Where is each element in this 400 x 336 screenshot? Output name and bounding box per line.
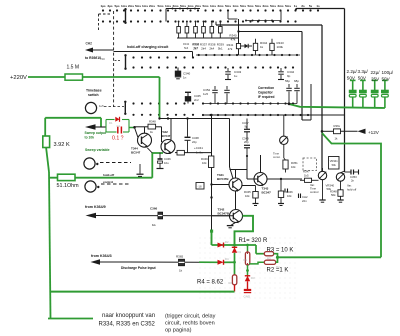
- hold-off charging wire: [114, 52, 193, 58]
- capacitor C342: [278, 68, 295, 80]
- transistor T342 bottom: [230, 210, 243, 224]
- bus wire y103: [203, 103, 297, 105]
- ground VR343: [337, 200, 343, 202]
- svg-text:D1: D1: [109, 121, 113, 125]
- svg-text:BC547B: BC547B: [217, 177, 229, 181]
- T343 base wire: [247, 156, 258, 179]
- T343 collector wire: [260, 155, 262, 173]
- svg-text:22p: 22p: [192, 140, 197, 144]
- svg-text:9p: 9p: [287, 74, 291, 78]
- svg-text:hold-off charging circuit: hold-off charging circuit: [127, 45, 169, 49]
- vertical wire x238: [238, 19, 240, 55]
- small dots row: [245, 20, 281, 22]
- svg-text:2ms: 2ms: [149, 4, 155, 8]
- svg-text:R334, R335 en C352: R334, R335 en C352: [99, 322, 156, 328]
- junction after box: [133, 126, 136, 129]
- svg-text:47k: 47k: [231, 38, 236, 42]
- T344 collector wire: [144, 127, 146, 133]
- svg-text:control: control: [103, 180, 113, 184]
- svg-text:10k: 10k: [245, 194, 250, 198]
- switch contact dots row 1: [102, 9, 319, 11]
- svg-text:5ms: 5ms: [180, 4, 186, 8]
- timebase switch knob: [85, 102, 96, 113]
- label -18v box: [196, 183, 204, 190]
- transistor T342 mid: [161, 140, 175, 155]
- junction A2: [246, 244, 249, 247]
- bias green drop: [210, 230, 213, 245]
- capacitor C366: [150, 207, 163, 228]
- wire x216 stub: [215, 22, 217, 26]
- hold-off wire: [49, 177, 152, 179]
- svg-text:3.3µ/: 3.3µ/: [358, 69, 369, 74]
- svg-text:1ms: 1ms: [187, 4, 193, 8]
- svg-text:Correction: Correction: [258, 86, 274, 90]
- resistor R341: [227, 43, 241, 51]
- ground under R345: [253, 204, 259, 206]
- resistor R365: [176, 255, 185, 273]
- R1 bottom stub: [247, 265, 249, 271]
- T342 base wire: [210, 196, 229, 216]
- svg-text:R4: R4: [229, 281, 233, 285]
- junction x322 y131: [321, 130, 324, 133]
- emitter green wire: [152, 153, 163, 178]
- svg-text:-18: -18: [198, 185, 202, 189]
- resistor bank labels: [192, 43, 224, 51]
- svg-text:100µ/: 100µ/: [382, 70, 394, 75]
- green cap bus: [289, 104, 385, 108]
- arrow +12V: [358, 129, 366, 134]
- svg-text:R348: R348: [149, 120, 156, 124]
- svg-text:5k1: 5k1: [218, 47, 223, 51]
- wire down x159: [159, 77, 161, 119]
- svg-text:C366: C366: [150, 207, 158, 211]
- contact dots row y67: [202, 66, 294, 68]
- long vertical wire x344: [344, 9, 346, 173]
- svg-text:Discharge Pulse Input: Discharge Pulse Input: [121, 266, 157, 270]
- svg-text:1k: 1k: [260, 45, 264, 49]
- junction R1 bottom: [246, 269, 249, 272]
- timebase range labels right: [157, 4, 320, 8]
- svg-text:5ms: 5ms: [255, 4, 261, 8]
- T341 base wire: [210, 183, 229, 185]
- svg-text:D1: D1: [238, 250, 242, 254]
- vertical green x256: [256, 245, 264, 254]
- svg-text:1ms: 1ms: [142, 4, 148, 8]
- wire R348 to T342 base: [156, 127, 162, 142]
- junction x159 y118: [158, 114, 212, 120]
- bus wire y115: [203, 114, 345, 116]
- svg-text:1n: 1n: [152, 223, 156, 227]
- capacitor C346: [157, 153, 172, 169]
- electrolytic capacitor bank: [349, 80, 388, 108]
- wire 1.5M to corner: [83, 76, 160, 78]
- svg-text:control: control: [310, 190, 319, 194]
- svg-text:1n: 1n: [183, 76, 187, 80]
- wire y131: [322, 130, 334, 132]
- wire x229 to T341: [230, 167, 234, 179]
- box VR341: [329, 157, 340, 170]
- wire L x166: [166, 8, 200, 22]
- svg-text:25V: 25V: [371, 77, 380, 82]
- svg-text:1ms: 1ms: [210, 4, 216, 8]
- R3 right stub: [274, 254, 278, 263]
- svg-text:5k6: 5k6: [184, 46, 189, 50]
- wire +220V feed: [28, 76, 65, 78]
- long vertical wire x322: [321, 25, 323, 171]
- svg-text:circuit, rechts boven: circuit, rechts boven: [165, 321, 215, 327]
- svg-text:50V: 50V: [382, 77, 391, 82]
- svg-text:720: 720: [100, 57, 105, 61]
- svg-text:BC547: BC547: [131, 151, 141, 155]
- resistor 1.5M: [65, 74, 83, 80]
- contact dots row y114 left: [132, 114, 194, 116]
- svg-text:+220V: +220V: [10, 75, 27, 81]
- svg-text:(trigger circuit, delay: (trigger circuit, delay: [165, 314, 216, 320]
- junction R3R2: [276, 256, 279, 259]
- pot VR343: [336, 171, 344, 190]
- wire T342 to R342: [175, 152, 177, 154]
- diode D340: [241, 44, 252, 48]
- capacitor C345: [185, 92, 201, 103]
- capacitor C353: [345, 170, 359, 183]
- svg-text:VR341: VR341: [330, 159, 338, 163]
- svg-text:R4 = 8.62: R4 = 8.62: [197, 280, 224, 286]
- svg-text:5ms: 5ms: [247, 4, 253, 8]
- timebase switch dashes: [104, 106, 124, 108]
- svg-text:1s: 1s: [316, 4, 320, 8]
- wire T341 emitter to T342 collector: [235, 191, 237, 210]
- svg-text:to 10k: to 10k: [85, 136, 95, 140]
- label T341: [217, 173, 229, 181]
- capacitor C340: [175, 68, 191, 80]
- svg-text:20p: 20p: [244, 140, 249, 144]
- svg-text:R343: R343: [193, 42, 200, 46]
- diode D5: [115, 117, 119, 122]
- switch contact dots row 4: [132, 66, 194, 68]
- svg-text:2k4: 2k4: [209, 47, 214, 51]
- contact dots row y55: [196, 54, 300, 56]
- svg-text:1u5: 1u5: [203, 92, 208, 96]
- switch wiper dashed line: [113, 11, 115, 107]
- label VR340 50k: [326, 184, 335, 192]
- svg-text:op pagina): op pagina): [165, 328, 192, 334]
- svg-text:to R39/I10: to R39/I10: [85, 56, 101, 60]
- svg-text:Sweep output: Sweep output: [85, 131, 108, 135]
- timebase range labels left: [100, 4, 155, 8]
- switch wiper bar section2: [124, 54, 126, 70]
- label T342 mid: [161, 130, 171, 138]
- label Var hold-off: [347, 184, 357, 192]
- arrow K364/3: [91, 259, 101, 264]
- resistor R345: [244, 190, 258, 203]
- switch contact dots row 3: [132, 56, 194, 58]
- label C341 100u: [194, 146, 203, 155]
- svg-text:5ms: 5ms: [202, 4, 208, 8]
- svg-text:56k: 56k: [331, 193, 336, 197]
- T344 emitter stub: [147, 148, 152, 153]
- switch wiper dashed line 2: [99, 14, 111, 30]
- svg-text:10k: 10k: [202, 161, 207, 165]
- capacitor C350: [285, 79, 292, 104]
- wire corner C: [302, 84, 311, 120]
- cap mark: [285, 189, 288, 193]
- junction dot: [237, 30, 239, 32]
- contact dots row y103 right: [202, 102, 294, 104]
- control dashes: [101, 183, 130, 185]
- svg-text:Capacitor: Capacitor: [258, 91, 273, 95]
- svg-text:2k4: 2k4: [201, 47, 206, 51]
- wire sweep corner down: [100, 118, 102, 127]
- svg-text:2µs: 2µs: [107, 4, 112, 8]
- svg-text:R1: R1: [244, 258, 248, 262]
- resistor 3.92K: [43, 136, 50, 148]
- bias rail x211: [211, 115, 213, 231]
- transistor T341: [229, 178, 242, 192]
- resistor R352: [330, 190, 343, 200]
- svg-text:56p: 56p: [285, 79, 290, 83]
- svg-text:1u5: 1u5: [99, 104, 104, 108]
- node line A: [212, 244, 257, 246]
- svg-text:68p: 68p: [294, 79, 299, 83]
- transistor T344: [138, 133, 152, 148]
- svg-text:5s: 5s: [309, 4, 313, 8]
- wire junction to T344 base: [135, 128, 138, 138]
- svg-text:50V: 50V: [358, 76, 367, 81]
- svg-text:D2: D2: [225, 240, 229, 244]
- capacitor C349: [242, 137, 250, 158]
- switch dash stub: [115, 60, 121, 62]
- svg-text:D4: D4: [225, 257, 229, 261]
- svg-text:1ms: 1ms: [165, 4, 171, 8]
- svg-text:1..0u: 1..0u: [196, 151, 203, 155]
- resistor R348: [148, 120, 156, 135]
- capacitor C352 group: [203, 86, 230, 104]
- T342 emitter ground: [227, 222, 236, 228]
- green wire into D2: [199, 261, 218, 263]
- svg-text:2s: 2s: [301, 4, 305, 8]
- wire corner B: [216, 24, 322, 26]
- svg-text:5ms: 5ms: [240, 4, 246, 8]
- svg-text:1s: 1s: [294, 4, 298, 8]
- svg-text:const.: const.: [273, 155, 281, 159]
- svg-text:2ms: 2ms: [195, 4, 201, 8]
- bottom green stub: [48, 318, 93, 320]
- svg-text:R365: R365: [176, 255, 184, 259]
- label Timebase switch: [86, 89, 102, 98]
- svg-text:1ms: 1ms: [121, 4, 127, 8]
- svg-text:1.5 M: 1.5 M: [67, 65, 80, 71]
- wire top bend: [228, 11, 238, 20]
- svg-text:2ms: 2ms: [128, 4, 134, 8]
- vertical wire x281 top: [280, 11, 282, 21]
- T341 collector wire: [235, 170, 237, 179]
- svg-text:51.1Ohm: 51.1Ohm: [57, 183, 80, 189]
- svg-text:R342: R342: [183, 42, 190, 46]
- svg-text:5ms: 5ms: [270, 4, 276, 8]
- label T343: [262, 187, 272, 195]
- wire K364/3: [99, 261, 199, 263]
- svg-text:5ms: 5ms: [157, 4, 163, 8]
- resistor R3: [264, 252, 276, 261]
- svg-text:GND: GND: [244, 295, 252, 299]
- sweep variable knob: [84, 158, 99, 169]
- label Sweep output: [85, 131, 108, 140]
- resistor R342: [177, 150, 184, 155]
- wire R351 to arrow: [341, 130, 358, 132]
- svg-text:BC547: BC547: [262, 191, 272, 195]
- wire K364/9: [95, 215, 233, 217]
- svg-text:9p: 9p: [245, 125, 249, 129]
- svg-text:2ms: 2ms: [172, 4, 178, 8]
- wire y169: [230, 169, 248, 171]
- RC network box: [106, 120, 129, 133]
- arrow K364/9: [86, 213, 97, 218]
- capacitor C347: [242, 119, 250, 142]
- svg-text:BC547B: BC547B: [218, 212, 230, 216]
- svg-text:100k: 100k: [277, 45, 284, 49]
- svg-text:2ms: 2ms: [262, 4, 268, 8]
- switch contact dots row 2: [102, 20, 297, 22]
- capacitor C351: [294, 79, 300, 104]
- svg-text:1u: 1u: [234, 74, 238, 78]
- svg-text:BC547: BC547: [161, 134, 171, 138]
- svg-text:5k7: 5k7: [194, 46, 199, 50]
- label cap values: [347, 69, 394, 75]
- diode D3: [245, 271, 255, 290]
- svg-text:+C341: +C341: [194, 146, 203, 150]
- svg-text:22µ/: 22µ/: [371, 70, 381, 75]
- contact dots row y103 left: [132, 102, 194, 104]
- wire to R348: [135, 126, 149, 128]
- svg-text:IF required: IF required: [258, 95, 275, 99]
- svg-text:0.1 ?: 0.1 ?: [112, 136, 124, 142]
- svg-text:47k: 47k: [228, 47, 233, 51]
- left rail vertical lower: [45, 140, 50, 319]
- pot VR342: [280, 115, 288, 158]
- svg-text:D3: D3: [251, 276, 255, 280]
- svg-text:R1= 320 R: R1= 320 R: [239, 238, 269, 244]
- switch wiper bar section3: [124, 101, 126, 115]
- svg-text:1k: 1k: [179, 269, 183, 273]
- wire R342 right: [184, 152, 211, 154]
- resistor R2: [264, 260, 280, 269]
- eagle grid dots: [200, 238, 296, 299]
- junction A1: [233, 244, 236, 247]
- resistor R347: [300, 170, 319, 183]
- collector rail x229: [229, 119, 231, 168]
- diode D4: [218, 257, 230, 265]
- red ground GND: [244, 290, 252, 299]
- svg-text:2ms: 2ms: [277, 4, 283, 8]
- pot VR340: [318, 168, 326, 200]
- svg-text:+12V: +12V: [368, 130, 380, 135]
- label correction capacitor: [258, 86, 275, 99]
- label trigger circuit: [165, 314, 216, 334]
- resistor R4: [229, 262, 237, 291]
- wire y118 horizontal: [45, 117, 101, 119]
- svg-text:5ms: 5ms: [225, 4, 231, 8]
- resistor R346: [278, 179, 293, 203]
- resistor R349: [201, 156, 214, 168]
- ground stub x140: [137, 164, 144, 176]
- sweep variable dashes: [100, 162, 131, 164]
- arrow to R39/I10: [85, 48, 114, 53]
- svg-text:2n2: 2n2: [194, 98, 199, 102]
- diode D1: [232, 245, 242, 262]
- svg-text:1ms: 1ms: [232, 4, 238, 8]
- svg-text:3.92 K: 3.92 K: [54, 142, 70, 148]
- junction B1: [233, 261, 236, 264]
- left rail vertical: [44, 118, 46, 140]
- ground VR340: [319, 200, 325, 202]
- capacitor C343: [225, 68, 242, 80]
- capacitor CH2 22n: [299, 194, 309, 204]
- wire corner A: [295, 8, 345, 10]
- R1 to R2 wire: [249, 262, 264, 264]
- capacitor C348a: [185, 119, 200, 153]
- dashed IC box: [303, 158, 317, 171]
- svg-text:from K364/3: from K364/3: [91, 254, 112, 258]
- ground under R346: [278, 204, 284, 206]
- label R342 R343 top: [183, 42, 200, 50]
- transistor T343: [254, 173, 267, 187]
- label Var Time control: [310, 183, 319, 194]
- svg-text:hold-off: hold-off: [347, 188, 357, 192]
- sweep output arrow: [85, 124, 106, 130]
- collector green stair: [235, 216, 254, 245]
- T342 collector wire: [170, 119, 172, 141]
- label cap voltages: [347, 76, 391, 82]
- wire y179 right: [267, 178, 303, 180]
- resistor R344: [253, 39, 267, 55]
- capacitor C5: [118, 127, 122, 134]
- svg-text:C1: C1: [117, 124, 121, 128]
- svg-text:5µs: 5µs: [114, 4, 119, 8]
- long vertical wire x302: [301, 32, 303, 121]
- green wire D4 to junction: [224, 261, 235, 263]
- svg-text:50V: 50V: [347, 76, 356, 81]
- svg-text:5ms: 5ms: [285, 4, 291, 8]
- wire T341-R345: [242, 186, 256, 192]
- svg-text:10u: 10u: [164, 161, 169, 165]
- svg-text:naar knooppunt van: naar knooppunt van: [102, 313, 155, 319]
- svg-text:2ms: 2ms: [217, 4, 223, 8]
- svg-text:10k: 10k: [287, 194, 292, 198]
- svg-text:5ms: 5ms: [135, 4, 141, 8]
- resistor R351: [334, 124, 341, 141]
- wire under resistor bank: [177, 37, 239, 39]
- svg-text:from K364/9: from K364/9: [85, 205, 106, 209]
- resistor R343: [270, 39, 284, 55]
- svg-text:Timebase: Timebase: [86, 89, 102, 93]
- label Time const: [273, 152, 281, 160]
- bottom green bus: [51, 291, 235, 293]
- svg-text:1k5: 1k5: [304, 174, 309, 178]
- svg-text:1µs: 1µs: [100, 4, 105, 8]
- label T342 bottom: [218, 208, 230, 216]
- control knob: [85, 181, 100, 192]
- wire y31 to right: [239, 31, 303, 33]
- long green return: [278, 256, 382, 258]
- svg-text:hold-off: hold-off: [103, 173, 114, 177]
- resistor 51.1Ohm: [58, 174, 76, 180]
- label D5 C5 gray: [109, 121, 121, 128]
- resistor R1: [244, 245, 250, 266]
- bus wire y118: [160, 118, 230, 120]
- resistor R350: [283, 158, 298, 173]
- green diagonal: [322, 133, 381, 257]
- switch wiper bar section1: [124, 8, 126, 24]
